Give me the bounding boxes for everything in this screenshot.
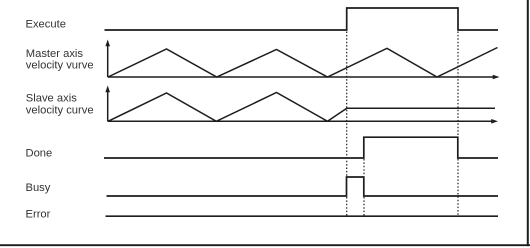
border right line: [527, 0, 529, 246]
svg-text:Execute: Execute: [26, 19, 66, 31]
svg-text:Error: Error: [26, 208, 51, 220]
svg-text:Slave axis: Slave axis: [26, 93, 77, 105]
svg-text:Master axis: Master axis: [26, 48, 84, 60]
border bottom line: [0, 244, 530, 246]
master axis vertical axis: [107, 45, 109, 78]
master axis horizontal axis: [108, 76, 494, 78]
wire Busy signal: [107, 177, 499, 196]
dotted timing line at Done rising edge: [363, 159, 365, 176]
wire Error signal: [106, 215, 499, 217]
dotted timing line at Execute falling edge: [457, 32, 459, 137]
dotted timing line at Execute rising edge: [346, 32, 348, 177]
slave axis vertical axis: [107, 91, 109, 122]
wire Execute signal: [105, 8, 499, 30]
svg-text:Busy: Busy: [26, 182, 51, 194]
slave axis horizontal axis: [108, 120, 492, 122]
wire master velocity curve: [108, 48, 498, 78]
svg-text:Done: Done: [26, 147, 53, 159]
svg-text:velocity vurve: velocity vurve: [26, 60, 94, 72]
svg-text:velocity curve: velocity curve: [26, 104, 94, 116]
wire slave velocity curve: [108, 93, 495, 122]
wire Done signal: [104, 137, 498, 158]
